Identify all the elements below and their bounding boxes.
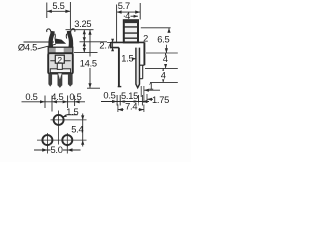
right side witness lines bbox=[141, 28, 178, 83]
svg-text:5.4: 5.4 bbox=[71, 124, 83, 134]
svg-text:7.4: 7.4 bbox=[125, 101, 137, 111]
dim 6.5 arrows bbox=[165, 28, 171, 53]
body right edge bbox=[143, 42, 145, 65]
dim 1 bbox=[141, 86, 144, 103]
svg-text:2.7: 2.7 bbox=[99, 41, 111, 51]
text 5.0 bbox=[51, 145, 64, 155]
center vertical line bbox=[58, 111, 60, 149]
right spring finger bbox=[67, 31, 73, 47]
leader line dia 4.5 bbox=[24, 42, 56, 49]
svg-text:2: 2 bbox=[143, 33, 148, 43]
collar band bbox=[48, 47, 73, 53]
svg-text:5.15: 5.15 bbox=[121, 91, 138, 101]
bottom right hole bbox=[62, 135, 72, 145]
body left foot bbox=[118, 86, 122, 88]
dim 5.4 line bbox=[82, 114, 84, 147]
witness ticks bbox=[45, 96, 75, 112]
left finger hook bbox=[47, 29, 51, 32]
text 4b bbox=[160, 71, 167, 80]
svg-text:1.5: 1.5 bbox=[66, 107, 78, 117]
svg-text:Ø4.5: Ø4.5 bbox=[18, 42, 37, 52]
svg-text:0.5: 0.5 bbox=[25, 92, 37, 102]
chain arrows bbox=[40, 100, 80, 103]
bottom right hole vertical bbox=[66, 133, 68, 147]
side ticks bbox=[50, 60, 70, 62]
dim 5.7 arrows bbox=[117, 10, 141, 13]
text 7.4 bbox=[124, 103, 139, 111]
text 4 top bbox=[125, 13, 131, 20]
dim 2.7 line bbox=[83, 42, 85, 53]
extent line top of clip bbox=[66, 29, 94, 31]
collar window bbox=[56, 48, 64, 53]
center blade bbox=[57, 74, 62, 88]
right band bbox=[68, 74, 73, 87]
dim 3.25 arrows bbox=[83, 30, 86, 42]
bottom left hole bbox=[42, 135, 52, 145]
bottom dims right view bbox=[101, 81, 169, 112]
cross slot horizontal bbox=[50, 69, 70, 73]
dim 4b arrows bbox=[162, 68, 165, 82]
svg-text:6.5: 6.5 bbox=[157, 34, 169, 44]
bottom view bbox=[34, 107, 87, 155]
left spring finger bbox=[49, 31, 55, 47]
bottom left hole vertical bbox=[46, 133, 48, 147]
svg-text:4.5: 4.5 bbox=[51, 92, 63, 102]
dim 5.7 line bbox=[117, 11, 141, 13]
right lower step bbox=[140, 65, 143, 79]
dim 4a line bbox=[165, 53, 167, 68]
arrow 1.5 bbox=[134, 58, 136, 60]
svg-text:0.5: 0.5 bbox=[69, 92, 81, 102]
witness y=53 bbox=[146, 52, 178, 54]
svg-text:1.75: 1.75 bbox=[152, 95, 169, 105]
right finger hook bbox=[71, 29, 75, 32]
dim 4 top arrows bbox=[124, 15, 138, 18]
dim 5.0 line bbox=[34, 149, 81, 151]
window with 2 bbox=[55, 55, 64, 63]
left band bbox=[48, 74, 52, 87]
svg-text:5.5: 5.5 bbox=[52, 1, 64, 11]
svg-text:1.5: 1.5 bbox=[121, 53, 133, 63]
jaw inner edges bbox=[55, 34, 67, 39]
dim 5.0 arrows bbox=[42, 148, 72, 151]
dim 4b line bbox=[162, 68, 164, 82]
dim 2.7 arrows left of flange bbox=[112, 39, 114, 50]
dim 5.0 witness bbox=[47, 146, 67, 154]
dim 7.4 bbox=[118, 105, 144, 113]
dim 14.5 arrows bbox=[88, 30, 91, 88]
body block bbox=[48, 53, 73, 73]
leader arrowhead bbox=[55, 38, 67, 43]
dim 4 top line bbox=[124, 15, 138, 17]
dim 5.5 witness lines bbox=[47, 2, 71, 29]
leader 1.5 bbox=[63, 115, 78, 118]
v slot upper bbox=[57, 63, 62, 69]
chain line bbox=[101, 101, 149, 103]
witness y=68.4 bbox=[145, 67, 178, 69]
extent line body top bbox=[74, 51, 98, 53]
side view leg bbox=[136, 48, 140, 88]
svg-text:5.0: 5.0 bbox=[51, 145, 63, 155]
text 5.15 bbox=[122, 92, 138, 101]
bottom holes crosshair h bbox=[37, 139, 87, 141]
svg-text:4: 4 bbox=[161, 70, 166, 80]
witness y=27.8 bbox=[141, 27, 171, 29]
svg-text:1: 1 bbox=[149, 81, 154, 91]
extent line leg bottom bbox=[87, 87, 100, 89]
svg-text:5.7: 5.7 bbox=[118, 1, 130, 11]
clip body bbox=[48, 47, 73, 88]
dim 5.7 witness bbox=[117, 3, 141, 42]
bottom dim chain left view bbox=[22, 101, 86, 103]
side view flange bbox=[111, 33, 148, 87]
side view top section bbox=[124, 20, 138, 42]
right step bbox=[140, 64, 145, 66]
dim 1.75 bbox=[146, 94, 148, 103]
dim 5.4 arrows bbox=[81, 115, 84, 144]
witness y=82.4 bbox=[150, 81, 178, 83]
dim 3.25 line bbox=[83, 30, 85, 42]
dim 5.5 arrows bbox=[47, 10, 71, 13]
dim 4a arrows bbox=[164, 53, 167, 68]
svg-text:14.5: 14.5 bbox=[80, 58, 97, 68]
dim 5.5 line bbox=[47, 10, 71, 12]
dim 2.7 arrows bbox=[83, 42, 86, 53]
top hole circle bbox=[54, 115, 64, 125]
chain arrows bbox=[112, 100, 147, 103]
text 4a bbox=[162, 56, 169, 65]
dim 6.5 line bbox=[166, 28, 169, 53]
v notch in blade bbox=[58, 73, 62, 79]
dim 14.5 line bbox=[89, 30, 91, 88]
svg-text:0.5: 0.5 bbox=[103, 91, 115, 101]
svg-text:3.25: 3.25 bbox=[74, 19, 91, 29]
extent line fuse center bbox=[80, 41, 108, 43]
top hole crosshair h bbox=[51, 119, 87, 121]
clip front view bbox=[47, 29, 75, 48]
svg-text:4: 4 bbox=[163, 54, 168, 64]
witness ticks bbox=[117, 95, 142, 106]
body left edge bbox=[118, 48, 120, 87]
